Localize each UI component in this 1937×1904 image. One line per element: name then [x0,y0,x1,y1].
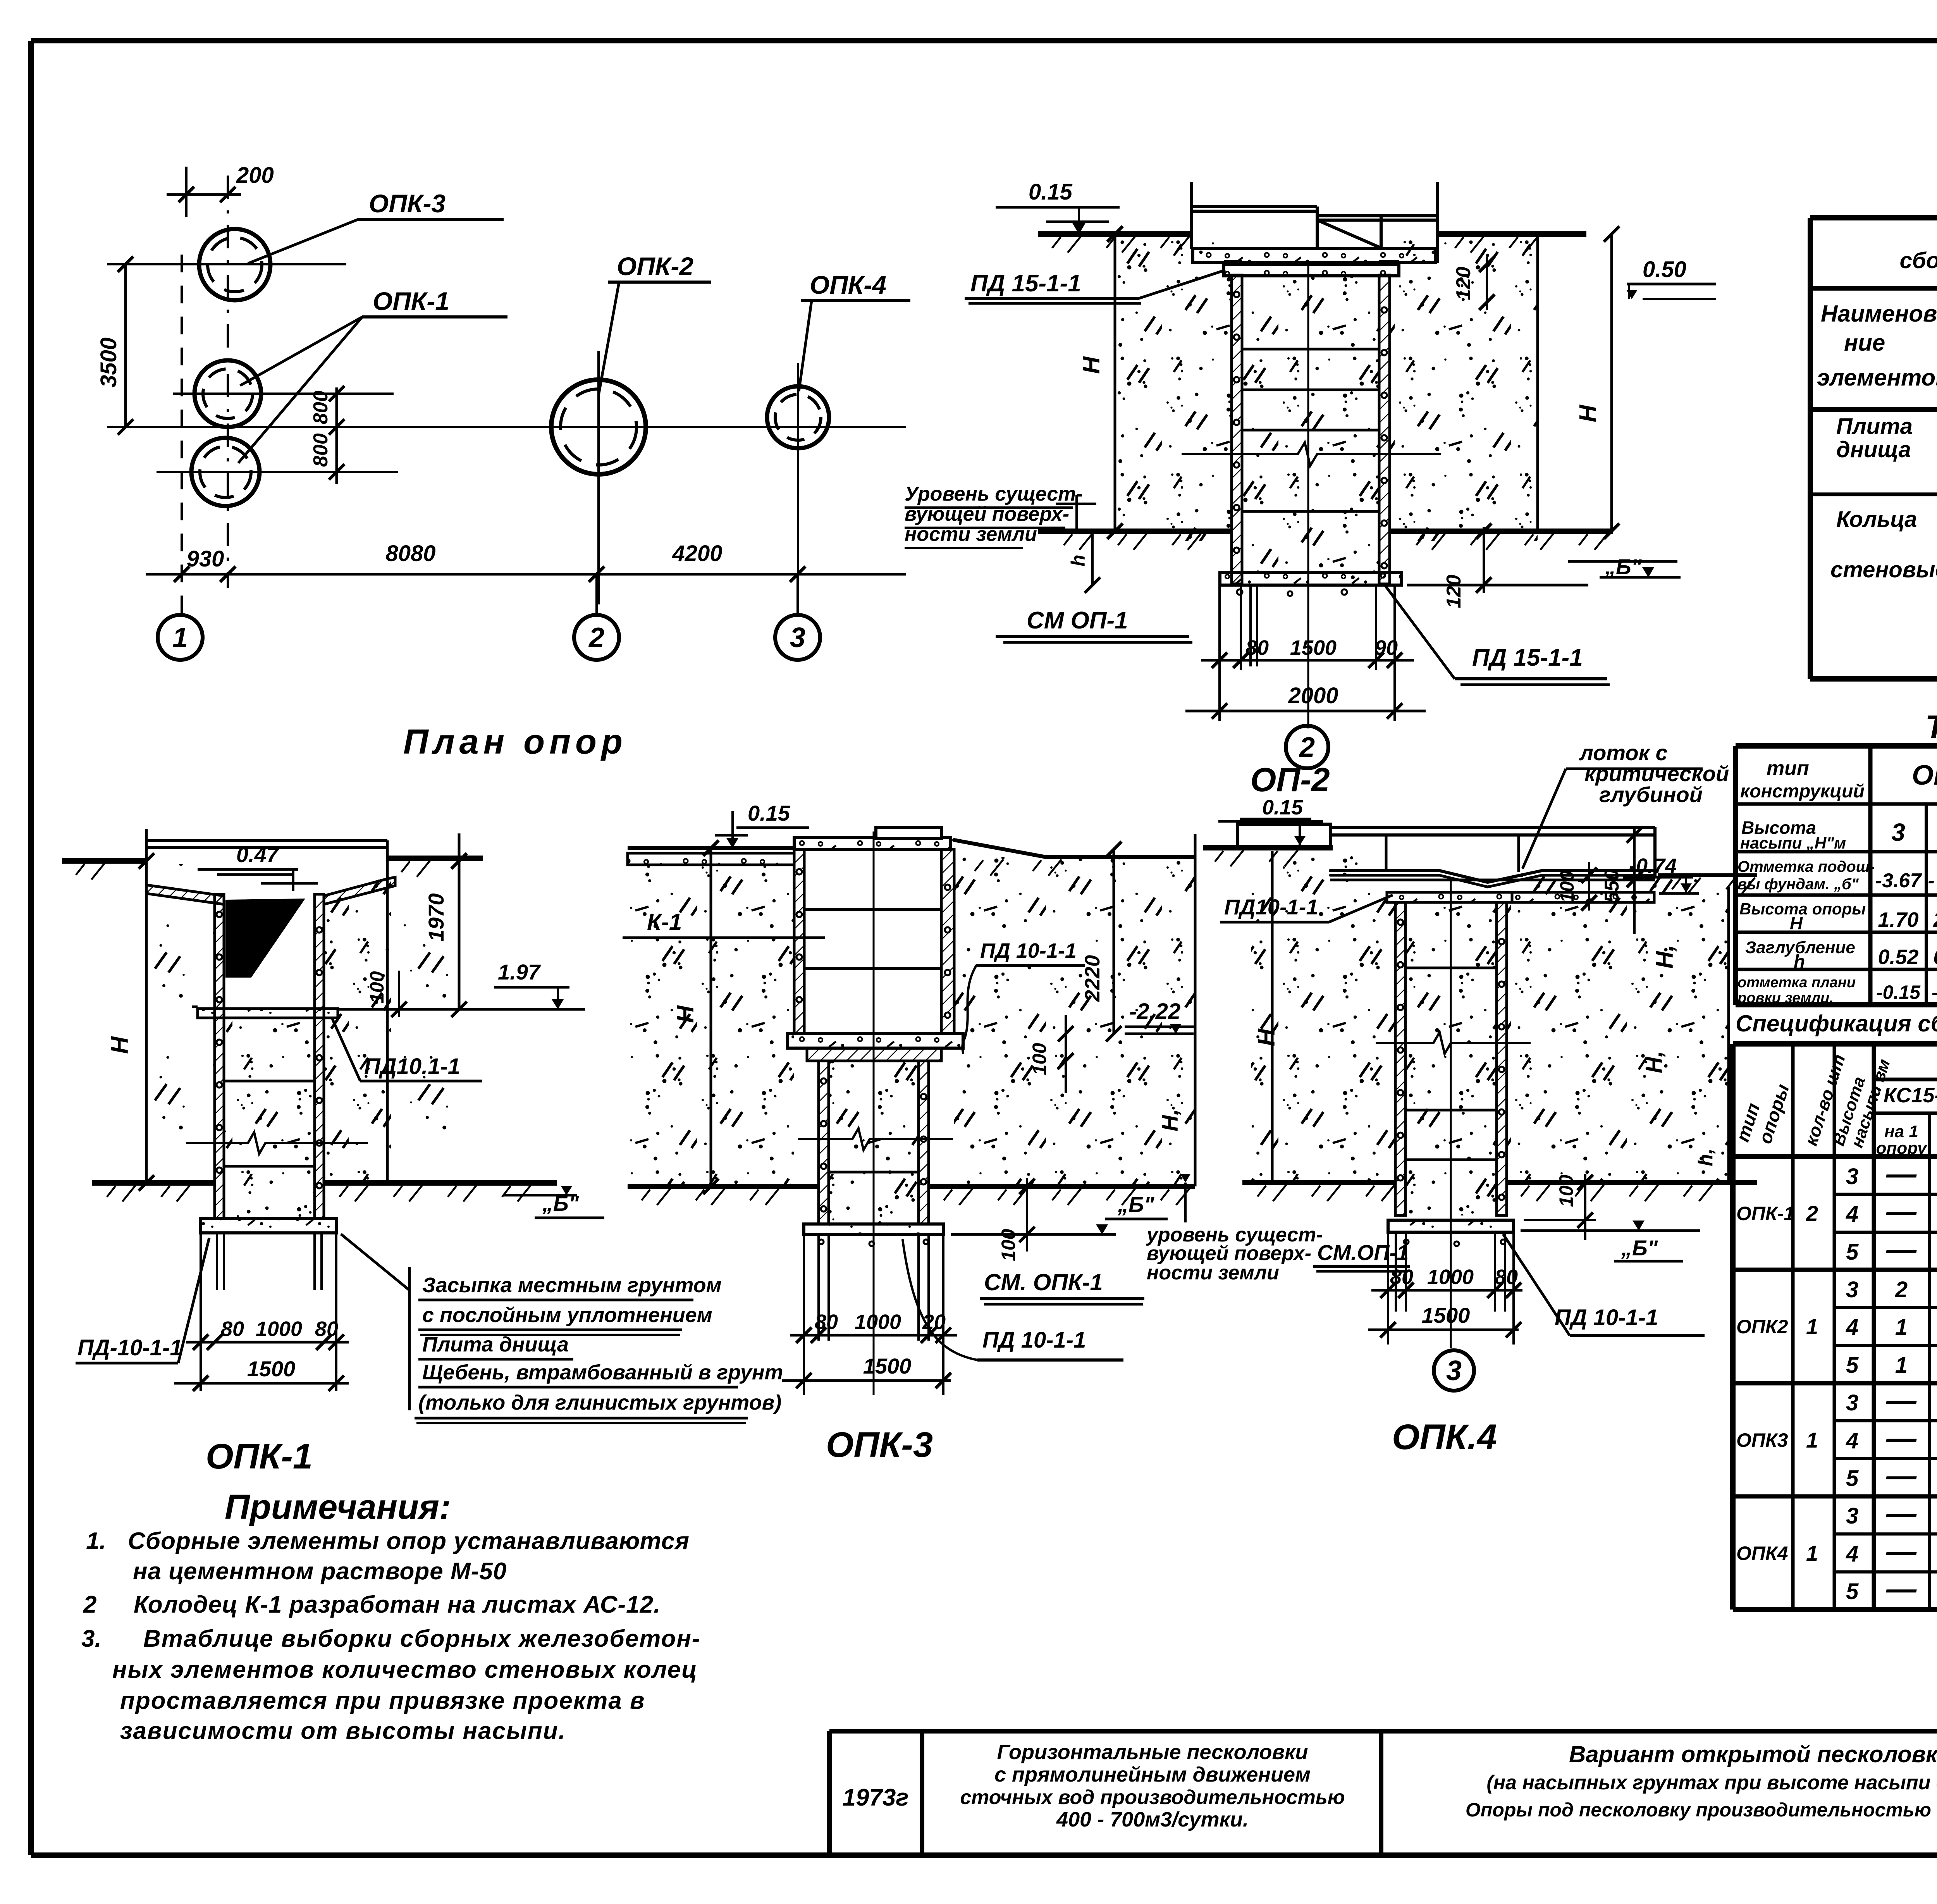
svg-text:0.15: 0.15 [1262,796,1303,819]
OPK-4: dim 1500 [1368,1329,1519,1331]
OPK-3: dim 2220 right [1113,849,1115,1034]
OPK-1: slab PD10-1-1 crossing [198,1009,338,1018]
svg-text:2.90: 2.90 [1933,908,1937,931]
svg-text:„Б": „Б" [1117,1192,1155,1217]
svg-text:ПД 15-1-1: ПД 15-1-1 [1472,644,1583,671]
svg-text:1.70: 1.70 [1878,908,1918,931]
svg-text:вующей поверх-: вующей поверх- [905,503,1069,525]
svg-text:h: h [1067,554,1089,566]
svg-text:Наименова: Наименова [1821,301,1937,327]
OPK-3: K-1 well top slab [794,838,950,849]
svg-text:1.97: 1.97 [498,960,541,984]
svg-text:1: 1 [1806,1314,1818,1339]
svg-text:0.15: 0.15 [748,801,790,825]
svg-text:ОП-2: ОП-2 [1250,761,1330,799]
OPK-4: footing slab [1388,1220,1514,1232]
OPK-4: dim extensions below [1387,1232,1389,1345]
OP-2: excavation boundary right [1536,234,1539,531]
svg-text:Вариант открытой песколовки: Вариант открытой песколовки [1569,1741,1937,1767]
OPK-1: ring joints [224,1080,315,1083]
svg-text:1000: 1000 [855,1310,901,1334]
svg-text:Н,: Н, [1651,945,1678,969]
svg-text:-0.15: -0.15 [1876,981,1921,1003]
plan: dashed grid line 1 [181,255,183,614]
OP-2: dim extension lines below footing [1218,585,1221,721]
svg-text:Н: Н [1253,1028,1280,1046]
svg-text:3: 3 [1846,1164,1858,1189]
OPK-4: channel bottom chords with dip [1330,871,1655,882]
OPK-1: dim H left [145,834,148,1183]
OPK-1: backfill notes block with leader [408,1267,411,1410]
plan: well OPK-3 (circle) [199,229,270,300]
svg-text:800: 800 [310,433,332,467]
svg-text:100: 100 [1029,1043,1050,1075]
OPK-1: footing slab [201,1219,336,1233]
OPK-1: black shadow wedge inside channel [226,899,304,977]
svg-text:5: 5 [1846,1239,1859,1265]
OPK-4: left boundary [1271,851,1274,1183]
OP-2: dim line 2000 [1185,710,1426,713]
svg-text:-3.67: -3.67 [1875,869,1922,892]
OPK-3: ring joint + break [829,1171,919,1174]
svg-text:- 4.87: - 4.87 [1928,869,1937,892]
svg-text:3500: 3500 [96,337,121,387]
svg-text:Сборные элементы опор устана: Сборные элементы опор устанавливаются [128,1528,690,1555]
svg-text:Уровень сущест-: Уровень сущест- [905,483,1083,505]
svg-text:элементов: элементов [1817,365,1937,391]
svg-text:ОПК-4: ОПК-4 [810,270,886,299]
OPK-4: B level mark [1521,1229,1700,1232]
svg-text:5: 5 [1846,1353,1859,1378]
svg-text:с прямолинейным движением: с прямолинейным движением [994,1763,1311,1786]
OP-2: shaft interior concrete [1242,275,1379,584]
OP-2: embankment surface line left [1038,231,1193,237]
svg-text:Н: Н [672,1005,699,1023]
svg-text:—: — [1886,1383,1917,1417]
svg-text:Отметка подош-: Отметка подош- [1737,858,1875,875]
OPK-1: dim 1970 right [458,833,461,1009]
OPK-4: second plate to the right [1512,892,1654,902]
OP-2: footing slab [1220,573,1401,585]
OPK-1: existing ground line [92,1180,215,1186]
svg-text:—: — [1886,1232,1917,1266]
svg-text:Кольца: Кольца [1836,507,1917,532]
svg-text:ровки земли.: ровки земли. [1737,990,1834,1006]
OP-2: existing ground line left [1038,529,1233,534]
svg-text:-0.74: -0.74 [1629,854,1677,878]
svg-text:СМ. ОПК-1: СМ. ОПК-1 [984,1269,1103,1295]
svg-text:100: 100 [1555,1174,1577,1207]
OPK-4: existing ground line [1242,1180,1395,1185]
svg-text:Плита днища: Плита днища [422,1333,569,1356]
plan: dim 200 [167,193,241,196]
svg-text:Щебень, втрамбованный в грунт: Щебень, втрамбованный в грунт [422,1361,783,1384]
svg-text:конструкций: конструкций [1740,781,1865,802]
svg-text:ных элементов количество сте: ных элементов количество стеновых колец [112,1656,698,1683]
OPK-4: grid bubble 3 [1434,1350,1474,1391]
OPK-3: centerline [873,831,875,1395]
OPK-4: channel top chords going right [1330,826,1655,829]
svg-text:сточных вод производительность: сточных вод производительностью [960,1786,1345,1809]
svg-text:1: 1 [1806,1541,1818,1565]
svg-text:—: — [1886,1194,1917,1228]
OP-2: plate PD 15-1-1 under slab [1224,264,1399,276]
svg-text:200: 200 [236,163,274,188]
OPK-3: H dim left [710,848,712,1186]
OPK-4: ring joints and break [1405,967,1497,969]
table: specification of precast elements for assembly scheme [1810,215,1937,220]
OPK-3: sloped surface right of well [954,840,1100,857]
svg-text:1: 1 [1806,1428,1818,1452]
svg-text:1000: 1000 [256,1317,302,1341]
svg-text:Н: Н [107,1036,133,1054]
OPK-3: K-1 well right wall [941,849,954,1034]
svg-text:h,: h, [1694,1148,1717,1166]
svg-text:80: 80 [1390,1265,1413,1289]
OPK-1: shaft interior below slab [224,1018,315,1219]
svg-text:8080: 8080 [385,541,435,566]
plan: grid bubble 3 [775,615,820,660]
svg-text:2: 2 [1806,1201,1818,1226]
OPK-1: top slab of channel [146,839,387,842]
svg-text:„Б": „Б" [1621,1236,1658,1260]
plan: dim 800 800 (vertical) [335,387,338,484]
svg-text:опору: опору [1876,1139,1928,1158]
OP-2: grid bubble 2 [1286,726,1328,768]
svg-text:ОПК-1: ОПК-1 [206,1437,313,1476]
svg-text:80: 80 [1495,1265,1518,1289]
svg-text:(только для глинистых грунтов): (только для глинистых грунтов) [418,1391,781,1414]
OPK-3: existing ground line [628,1184,819,1189]
OP-2: excavation boundary left [1114,234,1116,531]
svg-text:с послойным уплотнением: с послойным уплотнением [422,1303,712,1327]
svg-text:ОПК-2: ОПК-2 [617,252,693,281]
svg-text:ОПК2: ОПК2 [1736,1316,1788,1338]
svg-text:глубиной: глубиной [1599,782,1703,807]
svg-text:ОПК3: ОПК3 [1736,1429,1788,1451]
OPK-4: right boundary [1727,887,1730,1184]
svg-text:5: 5 [1846,1579,1859,1604]
OPK-3: soil mass left [628,865,794,1186]
OPK-3: dim 80 1000 20 [790,1334,957,1337]
svg-text:2220: 2220 [1081,955,1104,1002]
OPK-3: dowels below footing [817,1234,820,1341]
svg-text:1: 1 [172,622,188,653]
svg-text:сборных железобетонных элем: сборных железобетонных элементов [1900,248,1937,273]
OPK-4: soil mass left [1251,856,1395,1184]
svg-text:2: 2 [83,1591,96,1618]
OP-2: level mark 0.50 right [1627,283,1716,286]
OP-2: B level mark right [1568,560,1677,563]
svg-text:1: 1 [1895,1315,1908,1340]
svg-text:0.47: 0.47 [236,842,280,867]
svg-text:Опоры под песколовку произв: Опоры под песколовку производительностью… [1466,1799,1937,1821]
svg-text:120: 120 [1452,267,1475,300]
plan: grid bubble 2 [574,615,619,660]
svg-text:стеновые: стеновые [1830,557,1937,582]
OPK-1: dim extensions below [200,1233,202,1391]
svg-text:3: 3 [1846,1277,1858,1302]
svg-text:Н: Н [1575,405,1602,422]
OPK-4: centerline [1450,880,1452,1348]
svg-text:1973г: 1973г [842,1784,908,1811]
svg-text:4: 4 [1846,1202,1858,1227]
svg-text:-2.22: -2.22 [1129,999,1180,1024]
plan: dim 3500 (vertical) [124,264,127,427]
svg-text:Засыпка местным грунтом: Засыпка местным грунтом [422,1274,722,1297]
svg-text:1.: 1. [86,1528,106,1555]
svg-text:ОПК-1: ОПК-1 [1736,1203,1794,1224]
svg-text:(на насыпных грунтах при выс: (на насыпных грунтах при высоте насыпи д… [1486,1771,1937,1794]
drawing sheet frame [31,38,1937,43]
svg-text:2: 2 [588,622,604,653]
svg-text:Таблица опор: Таблица опор [1925,709,1937,745]
plan: bottom dimension line 930 / 8080 / 4200 [146,573,906,576]
svg-text:Н: Н [1078,356,1105,374]
svg-text:1500: 1500 [247,1357,296,1381]
OPK-1: soil left of shaft (sparse) [151,864,215,1183]
svg-text:на цементном растворе М-50: на цементном растворе М-50 [133,1558,507,1585]
svg-text:ности земли: ности земли [1147,1262,1279,1284]
OP-2: dowel bars below footing [1249,585,1252,666]
svg-text:насыпи „Н"м: насыпи „Н"м [1740,834,1846,852]
svg-text:ние: ние [1844,330,1885,356]
svg-text:2: 2 [1299,732,1315,763]
svg-text:днища: днища [1836,437,1911,462]
svg-text:80: 80 [315,1317,338,1341]
svg-text:3: 3 [790,622,805,653]
OPK-1: level line 1.97 [338,1008,585,1011]
OPK-1: walls below slab [215,1018,224,1219]
OP-2: H dim line right [1610,234,1613,531]
svg-text:ОПК4: ОПК4 [1736,1542,1788,1564]
svg-text:100: 100 [366,971,388,1004]
OP-2: top slab (stippled) [1193,249,1436,263]
OPK-1: dowels below footing [216,1233,218,1290]
svg-text:4200: 4200 [672,541,722,566]
OPK-1: soil right of shaft [324,880,391,1183]
OPK-4: shaft walls [1395,902,1405,1215]
svg-text:ПД-10-1-1: ПД-10-1-1 [77,1335,182,1360]
svg-text:План опор: План опор [403,723,627,761]
svg-text:Плита: Плита [1836,414,1913,439]
OPK-4: dim 80 1000 80 [1371,1289,1522,1292]
OPK-3: footing slab [804,1224,943,1234]
svg-text:„Б": „Б" [1605,554,1642,579]
OPK-3: label PD 10-1-1 with wavy leader [976,934,1087,966]
svg-text:2000: 2000 [1288,683,1338,708]
OPK-4: base line under box [1203,845,1333,850]
svg-text:1000: 1000 [1427,1265,1474,1289]
OPK-4: channel left end box [1237,824,1330,847]
OPK-3: right boundary [1194,834,1197,1186]
OP-2: dim line 80 1500 90 [1201,659,1414,662]
svg-text:4: 4 [1846,1541,1858,1567]
OPK-1: sloped channel floor left [146,885,224,904]
svg-text:4: 4 [1846,1315,1858,1340]
svg-text:СМ ОП-1: СМ ОП-1 [1027,607,1128,634]
svg-text:—: — [1886,1572,1917,1606]
svg-text:Спецификация сборных железобе: Спецификация сборных железобетонных элем… [1736,1011,1937,1036]
svg-text:—: — [1886,1458,1917,1493]
svg-text:—: — [1886,1157,1917,1191]
OP-2: shaft right wall [1379,275,1390,584]
svg-text:3: 3 [1846,1503,1858,1529]
svg-text:800: 800 [310,391,332,424]
OP-2: top channel beams [1190,182,1193,249]
OPK-1: dim 1500 [174,1382,349,1385]
svg-text:5: 5 [1846,1466,1859,1491]
svg-text:1500: 1500 [1422,1303,1470,1327]
OP-2: ring joint lines [1242,348,1379,351]
OPK-3: gravel layer band left [628,853,794,865]
OPK-1: right embankment boundary [386,840,389,1183]
OPK-3: K-1 ring joints [804,908,941,911]
svg-text:КС15-1-1: КС15-1-1 [1884,1084,1937,1107]
svg-text:Колодец К-1 разработан на ли: Колодец К-1 разработан на листах АС-12. [134,1591,661,1618]
svg-text:ОПК-1: ОПК-1 [373,287,449,315]
OPK-1: planning surface line left [62,858,146,864]
svg-text:100: 100 [998,1229,1019,1261]
OP-2: break line symbol [1182,453,1298,455]
svg-text:вы фундам. „б": вы фундам. „б" [1737,876,1859,893]
OPK-3: K-1 well left wall [794,849,804,1034]
OPK-1: left wall [215,894,224,1018]
svg-text:—: — [1886,1534,1917,1568]
OP-2: soil mass right (stippled) [1390,234,1538,541]
svg-text:СМ.ОП-1: СМ.ОП-1 [1317,1240,1409,1265]
svg-text:ПД 10-1-1: ПД 10-1-1 [1555,1305,1658,1330]
svg-text:ПД 15-1-1: ПД 15-1-1 [970,270,1081,297]
svg-text:Примечания:: Примечания: [225,1488,451,1527]
svg-text:зависимости от высоты насып: зависимости от высоты насыпи. [120,1718,566,1744]
svg-text:Н,: Н, [1158,1109,1183,1131]
plan: well OPK-1 upper (circle) [194,360,261,427]
svg-text:400 - 700м3/сутки.: 400 - 700м3/сутки. [1056,1808,1249,1831]
svg-text:0.72: 0.72 [1933,945,1937,969]
svg-text:3: 3 [1846,1390,1858,1415]
svg-text:1500: 1500 [1290,636,1337,659]
svg-text:—: — [1886,1496,1917,1530]
svg-text:80: 80 [1245,636,1269,659]
OPK-4: soil mass right [1507,876,1729,1184]
OP-2: level helper line to B mark [1407,584,1588,587]
svg-text:ПД 10-1-1: ПД 10-1-1 [982,1327,1086,1353]
title block [829,1729,1937,1734]
OPK-3: shaft interior [829,1061,919,1224]
svg-text:0.15: 0.15 [1029,179,1073,205]
svg-text:Н,: Н, [1642,1051,1667,1073]
svg-text:ОПК-3: ОПК-3 [826,1425,933,1465]
plan: well OPK-4 (circle) [767,386,829,448]
OPK-3: planning surface left [628,846,794,850]
svg-text:Горизонтальные песколовки: Горизонтальные песколовки [997,1740,1308,1764]
svg-text:тип: тип [1767,757,1809,780]
plan view: well axis centerlines [107,263,346,265]
svg-text:Н: Н [1790,913,1803,933]
OPK-1: sloped channel floor right [324,877,395,904]
svg-text:930: 930 [187,546,224,572]
svg-text:3: 3 [1446,1355,1462,1386]
OPK-3: leveling band under slab [807,1048,941,1061]
plan: well OPK-2 (large circle) [551,380,646,474]
plan: grid bubble 1 [158,615,203,660]
svg-text:ности земли: ности земли [905,523,1037,546]
OP-2: soil mass left (stippled) [1116,234,1232,541]
OP-2: embankment surface line right [1436,231,1586,237]
OPK-1: break line [186,1142,248,1144]
OP-2: shaft left wall [1232,275,1242,584]
svg-text:1500: 1500 [863,1354,912,1378]
svg-text:80: 80 [815,1310,838,1334]
svg-text:h: h [1794,952,1805,972]
OP-2: existing ground line right [1389,529,1613,534]
svg-text:90: 90 [1374,636,1398,659]
OPK-4: shaft interior [1405,902,1497,1215]
svg-text:проставляется при привязке п: проставляется при привязке проекта в [120,1687,645,1714]
svg-text:2: 2 [1895,1277,1908,1302]
plan: well OPK-1 lower (circle) [191,438,260,506]
svg-text:-0.15: -0.15 [1932,981,1937,1003]
OPK-3: soil mass right [954,857,1195,1186]
svg-text:ОПК-3: ОПК-3 [369,189,446,218]
OPK-3: surface right segment [1100,855,1195,859]
svg-text:ОПК.4: ОПК.4 [1392,1417,1497,1457]
svg-text:80: 80 [221,1317,244,1341]
svg-text:на 1: на 1 [1884,1122,1918,1141]
OPK-3: shaft walls [819,1061,829,1224]
svg-text:3.: 3. [81,1625,101,1652]
svg-text:ОПК-1: ОПК-1 [1912,760,1937,791]
OPK-1: planning surface line right [387,856,483,861]
svg-text:1: 1 [1895,1353,1908,1378]
svg-text:3: 3 [1891,818,1905,846]
OPK-1: right wall [315,894,324,1018]
OP-2: shaft centerline [1307,264,1309,728]
OPK-1: dim 80 1000 80 [186,1341,349,1344]
svg-text:ПД 10-1-1: ПД 10-1-1 [980,939,1077,962]
svg-text:120: 120 [1443,575,1465,608]
svg-text:отметка плани: отметка плани [1737,974,1856,991]
svg-text:—: — [1886,1421,1917,1455]
svg-text:4: 4 [1846,1428,1858,1453]
OPK-3: dim extensions [803,1234,805,1395]
OPK-3: dim 1500 [782,1379,951,1382]
svg-text:Втаблице выборки сборных же: Втаблице выборки сборных железобетон- [143,1625,701,1652]
OPK-3: well bottom slab [788,1034,963,1048]
OPK-4: dowels below footing [1395,1232,1397,1312]
svg-text:1970: 1970 [424,893,448,942]
OPK-4: plate band (stippled) [1387,892,1512,902]
svg-text:0.50: 0.50 [1643,257,1686,282]
svg-text:0.52: 0.52 [1878,945,1918,969]
